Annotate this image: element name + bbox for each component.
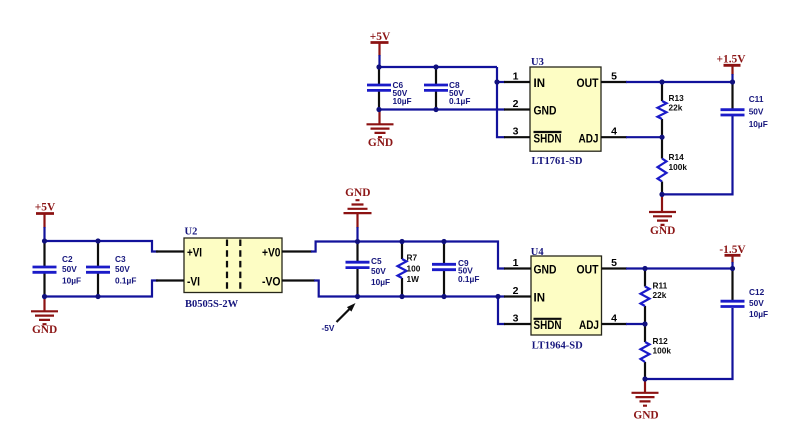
wire +V0 to GND mid rail bbox=[311, 242, 505, 269]
pin 4 U4 bbox=[602, 313, 628, 325]
svg-text:GND: GND bbox=[534, 106, 557, 118]
svg-text:SHDN: SHDN bbox=[534, 133, 562, 145]
svg-text:B0505S-2W: B0505S-2W bbox=[185, 299, 239, 310]
resistor R14 100k bbox=[658, 137, 688, 194]
capacitor C12 bbox=[721, 269, 769, 320]
svg-text:R14: R14 bbox=[669, 152, 685, 162]
power -1.5V bbox=[719, 244, 746, 268]
wire GND rail to U2 -VI bbox=[45, 281, 159, 297]
svg-text:0.1µF: 0.1µF bbox=[458, 274, 479, 284]
resistor R7 100 1W bbox=[398, 242, 421, 297]
svg-text:U4: U4 bbox=[531, 247, 545, 258]
power +1.5V bbox=[717, 54, 747, 83]
svg-text:ADJ: ADJ bbox=[579, 133, 599, 145]
capacitor C8 bbox=[424, 67, 470, 110]
pin 1 U3 bbox=[504, 71, 530, 83]
svg-text:100: 100 bbox=[407, 264, 421, 274]
pin 4 U3 bbox=[601, 126, 627, 138]
svg-text:10µF: 10µF bbox=[371, 277, 390, 287]
pin -VO U2 bbox=[282, 279, 315, 281]
svg-text:4: 4 bbox=[611, 313, 617, 325]
power +5V (top) bbox=[370, 31, 391, 67]
node junctions (bottom-right) bbox=[642, 266, 735, 382]
svg-text:C2: C2 bbox=[62, 254, 73, 264]
wire +5V rail to U2 +VI bbox=[45, 241, 159, 252]
wire R12/C12 bottom bbox=[645, 308, 733, 379]
svg-text:0.1µF: 0.1µF bbox=[449, 96, 470, 106]
pin +V0 U2 bbox=[282, 250, 312, 252]
node junctions (middle) bbox=[355, 239, 501, 299]
wire -VO to -5V rail bbox=[314, 281, 505, 297]
ground GND (below C2) bbox=[31, 297, 58, 337]
svg-text:SHDN: SHDN bbox=[534, 320, 562, 332]
svg-text:3: 3 bbox=[513, 313, 519, 325]
svg-text:10µF: 10µF bbox=[62, 276, 81, 286]
svg-text:LT1964-SD: LT1964-SD bbox=[532, 341, 583, 352]
svg-text:50V: 50V bbox=[749, 298, 764, 308]
svg-text:22k: 22k bbox=[669, 103, 683, 113]
node -5V annotation arrow bbox=[322, 303, 356, 333]
svg-text:22k: 22k bbox=[653, 290, 667, 300]
svg-text:+5V: +5V bbox=[35, 202, 56, 214]
svg-text:R7: R7 bbox=[407, 253, 418, 263]
svg-text:50V: 50V bbox=[371, 266, 386, 276]
wire stub to U3 pin1 bbox=[497, 81, 505, 83]
resistor R11 22k bbox=[641, 269, 668, 325]
svg-text:GND: GND bbox=[345, 187, 370, 199]
resistor R12 100k bbox=[641, 324, 672, 379]
capacitor C11 bbox=[721, 82, 768, 129]
node junctions (top-left) bbox=[376, 64, 499, 112]
wire U3 OUT rail bbox=[626, 81, 733, 83]
svg-text:GND: GND bbox=[368, 137, 393, 149]
svg-text:+1.5V: +1.5V bbox=[717, 54, 747, 66]
pin -VI U2 bbox=[156, 279, 184, 281]
svg-text:+VI: +VI bbox=[187, 247, 202, 259]
wire U4 ADJ rail bbox=[626, 323, 645, 325]
svg-text:1: 1 bbox=[513, 257, 519, 269]
capacitor C5 bbox=[346, 242, 391, 297]
ground GND (below R12) bbox=[632, 379, 659, 422]
wire U3 ADJ rail bbox=[626, 136, 662, 138]
IC U4 LT1964-SD bbox=[531, 247, 602, 352]
wire U4 OUT rail bbox=[626, 267, 733, 269]
svg-text:+V0: +V0 bbox=[262, 247, 281, 259]
svg-text:50V: 50V bbox=[62, 264, 77, 274]
svg-text:ADJ: ADJ bbox=[579, 320, 599, 332]
ground GND (middle, flipped) bbox=[344, 187, 372, 242]
pin 3 U4 bbox=[504, 313, 531, 325]
svg-text:-VO: -VO bbox=[262, 276, 281, 288]
svg-text:50V: 50V bbox=[749, 107, 764, 117]
svg-text:GND: GND bbox=[650, 225, 675, 237]
svg-text:U2: U2 bbox=[185, 227, 198, 238]
capacitor C3 bbox=[86, 241, 136, 297]
IC U3 LT1761-SD bbox=[530, 57, 601, 167]
pin 2 U4 bbox=[504, 285, 531, 297]
wire -5V rail to U3 pin3 bbox=[498, 297, 505, 325]
pin 2 U3 bbox=[504, 98, 530, 110]
svg-text:100k: 100k bbox=[669, 162, 688, 172]
svg-text:C12: C12 bbox=[749, 287, 765, 297]
wire GND rail to U3 pin2 bbox=[379, 108, 505, 110]
ground GND (below R14) bbox=[649, 194, 676, 237]
svg-text:OUT: OUT bbox=[577, 265, 599, 277]
svg-text:LT1761-SD: LT1761-SD bbox=[532, 156, 583, 167]
svg-text:GND: GND bbox=[32, 324, 57, 336]
svg-text:50V: 50V bbox=[115, 264, 130, 274]
svg-text:C3: C3 bbox=[115, 254, 126, 264]
ground GND (below C6) bbox=[367, 110, 394, 150]
svg-text:R13: R13 bbox=[669, 93, 685, 103]
wire R14/C11 bottom bbox=[662, 116, 733, 194]
pin 5 U3 bbox=[601, 71, 627, 83]
node junctions (top-right) bbox=[659, 79, 735, 197]
capacitor C2 bbox=[33, 241, 82, 297]
pin 5 U4 bbox=[602, 257, 628, 269]
svg-text:GND: GND bbox=[633, 410, 658, 422]
svg-text:1: 1 bbox=[513, 71, 519, 83]
svg-text:U3: U3 bbox=[531, 57, 544, 68]
pin 1 U4 bbox=[504, 257, 531, 269]
resistor R13 22k bbox=[658, 82, 685, 137]
svg-text:5: 5 bbox=[611, 71, 617, 83]
svg-text:C5: C5 bbox=[371, 256, 382, 266]
capacitor C6 bbox=[367, 67, 412, 110]
svg-text:IN: IN bbox=[534, 293, 546, 305]
svg-text:10µF: 10µF bbox=[393, 96, 412, 106]
node junctions (bottom-left) bbox=[42, 238, 101, 299]
svg-text:C11: C11 bbox=[749, 94, 764, 104]
pin 3 U3 bbox=[504, 126, 530, 138]
svg-text:R12: R12 bbox=[653, 336, 669, 346]
svg-text:3: 3 bbox=[513, 126, 519, 138]
svg-text:2: 2 bbox=[513, 285, 519, 297]
svg-text:10µF: 10µF bbox=[749, 309, 768, 319]
svg-text:-5V: -5V bbox=[322, 323, 335, 333]
svg-text:R11: R11 bbox=[653, 281, 668, 291]
svg-text:GND: GND bbox=[534, 265, 557, 277]
svg-text:-VI: -VI bbox=[187, 276, 200, 288]
wire U3 pin1/pin3 vertical bbox=[497, 67, 505, 137]
svg-text:OUT: OUT bbox=[577, 78, 599, 90]
svg-text:100k: 100k bbox=[653, 346, 672, 356]
power +5V (bottom-left) bbox=[35, 202, 56, 242]
svg-text:2: 2 bbox=[513, 98, 519, 110]
svg-text:IN: IN bbox=[534, 78, 546, 90]
capacitor C9 bbox=[432, 242, 479, 297]
svg-text:5: 5 bbox=[611, 257, 617, 269]
svg-text:1W: 1W bbox=[407, 274, 420, 284]
wire +5V rail (top) bbox=[379, 66, 497, 68]
svg-text:0.1µF: 0.1µF bbox=[115, 276, 136, 286]
pin +VI U2 bbox=[156, 250, 184, 252]
IC U2 B0505S-2W bbox=[184, 227, 282, 311]
svg-text:4: 4 bbox=[611, 126, 617, 138]
svg-text:10µF: 10µF bbox=[749, 119, 768, 129]
